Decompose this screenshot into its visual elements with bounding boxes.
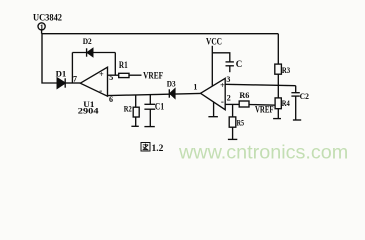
wire R4 to ground xyxy=(277,109,279,119)
svg-text:R2: R2 xyxy=(124,104,132,114)
wire R5 branch xyxy=(232,104,234,117)
wire R2 branch xyxy=(135,95,137,107)
node pin1 circled 1 (UC3842 pin 1) xyxy=(38,23,45,34)
wire R1 to VREF xyxy=(129,74,142,76)
ground stub under U2 xyxy=(208,102,218,117)
svg-text:D1: D1 xyxy=(56,68,67,78)
wire D2 feedback loop left vertical xyxy=(71,53,73,84)
ground R5 xyxy=(228,138,237,140)
wire top rail corner down to R3 xyxy=(277,34,279,64)
svg-text:+: + xyxy=(99,70,104,79)
wire pin6 - input rail to op-amp U2 xyxy=(108,93,201,95)
svg-text:D3: D3 xyxy=(167,79,176,89)
ground C2 xyxy=(293,119,301,121)
svg-text:3: 3 xyxy=(226,75,230,84)
wire D1 to op-amp U1 output pin 7 xyxy=(65,82,80,84)
wire node to R4 top xyxy=(277,86,279,98)
wire C2 to ground xyxy=(295,96,297,120)
wire top rail from pin1 to R3 xyxy=(42,33,279,35)
svg-text:R6: R6 xyxy=(239,90,249,100)
wire D2 feedback loop right vertical to + input node xyxy=(114,53,116,76)
svg-text:R3: R3 xyxy=(282,65,290,75)
wire pin3 + input to R3/R4 node and C2 xyxy=(225,84,296,85)
wire C1 to ground xyxy=(149,109,151,126)
svg-text:-: - xyxy=(221,96,224,106)
wire pin5 + input stub to R1 xyxy=(108,74,119,76)
resistor R4 xyxy=(275,98,281,109)
ground C1 xyxy=(144,126,154,128)
svg-text:C1: C1 xyxy=(155,102,165,112)
svg-text:VCC: VCC xyxy=(206,37,222,47)
capacitor C2 xyxy=(291,86,299,96)
wire R6 to R4/VREF xyxy=(249,104,275,107)
wire C1 branch xyxy=(149,95,151,105)
svg-text:D2: D2 xyxy=(83,36,92,46)
ground R4 xyxy=(273,118,281,120)
svg-text:1: 1 xyxy=(40,22,44,31)
wire R2 to ground xyxy=(135,117,137,126)
svg-text:2: 2 xyxy=(227,94,231,103)
svg-text:7: 7 xyxy=(73,74,77,83)
op-amp U2 xyxy=(201,78,226,109)
svg-text:VREF: VREF xyxy=(255,105,274,115)
wire C to pin3 node xyxy=(229,66,231,72)
diode D2 xyxy=(87,48,93,56)
wire pin2 - input to R6 xyxy=(225,103,239,105)
svg-text:VREF: VREF xyxy=(143,72,163,82)
resistor R5 xyxy=(229,117,236,127)
svg-text:1: 1 xyxy=(193,83,197,92)
ground R2 xyxy=(131,125,138,127)
svg-text:R4: R4 xyxy=(282,98,291,108)
svg-text:R5: R5 xyxy=(237,118,244,128)
wire VCC down line xyxy=(211,46,213,86)
diode D1 xyxy=(57,78,65,88)
wire D2 feedback loop top xyxy=(72,52,115,54)
svg-text:+: + xyxy=(220,81,225,90)
capacitor C1 xyxy=(144,104,155,109)
svg-text:C2: C2 xyxy=(300,91,309,101)
svg-text:R1: R1 xyxy=(119,60,128,70)
svg-text:www.cntronics.com: www.cntronics.com xyxy=(178,142,348,163)
svg-text:-: - xyxy=(99,86,102,96)
resistor R1 xyxy=(119,73,129,77)
wire VCC branch to C xyxy=(212,53,230,62)
capacitor C xyxy=(226,62,234,66)
wire R3 bottom to node xyxy=(277,74,279,85)
wire R5 to ground xyxy=(232,127,234,139)
svg-text:2904: 2904 xyxy=(78,105,99,115)
op-amp U1 xyxy=(80,67,107,96)
wire left rail down to D1 xyxy=(42,34,57,83)
diode D3 xyxy=(169,89,175,98)
svg-text:6: 6 xyxy=(109,95,113,104)
svg-text:1.2: 1.2 xyxy=(152,144,164,154)
svg-text:5: 5 xyxy=(109,73,113,82)
caption figure 1.2 xyxy=(141,143,164,154)
resistor R2 xyxy=(133,107,139,117)
resistor R6 xyxy=(239,101,249,107)
svg-text:C: C xyxy=(236,59,243,69)
svg-text:UC3842: UC3842 xyxy=(33,14,62,24)
resistor R3 xyxy=(275,64,282,74)
